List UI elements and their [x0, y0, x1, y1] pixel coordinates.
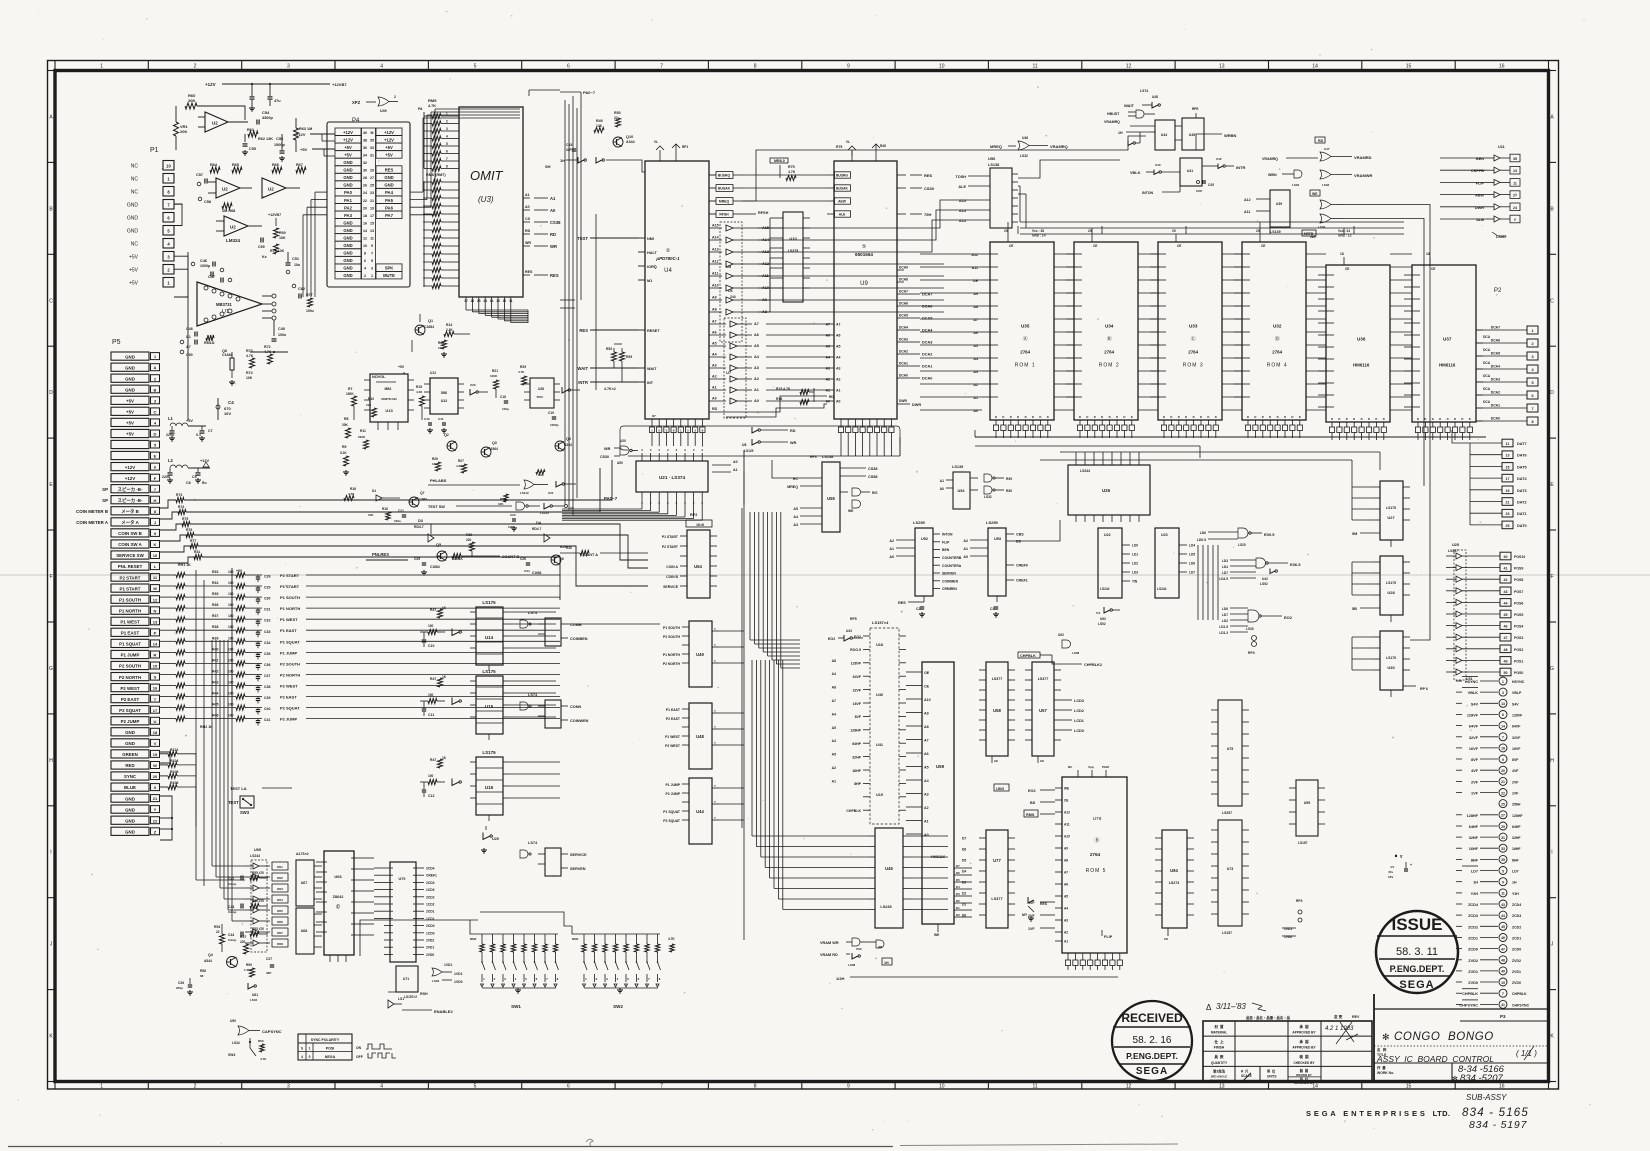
svg-text:U65: U65	[254, 848, 261, 852]
svg-text:11: 11	[1501, 892, 1505, 896]
gate U31b LS132	[516, 502, 525, 510]
svg-text:A4: A4	[1064, 907, 1068, 911]
svg-text:C: C	[49, 298, 53, 304]
inverter U62 flag	[1028, 897, 1034, 903]
svg-text:U49: U49	[696, 652, 704, 657]
ic U28b latch small	[530, 378, 554, 408]
svg-text:12: 12	[153, 597, 158, 602]
svg-text:GND: GND	[125, 730, 135, 735]
svg-text:LD3: LD3	[1132, 571, 1138, 575]
svg-text:GND: GND	[343, 258, 352, 263]
svg-text:23: 23	[370, 191, 374, 195]
svg-text:DCA9: DCA9	[899, 266, 908, 270]
svg-text:DCA0: DCA0	[1491, 417, 1500, 421]
connector P5 pin Y GND	[111, 805, 149, 813]
svg-text:ZCD2: ZCD2	[1468, 925, 1478, 929]
svg-text:D2: D2	[956, 899, 960, 903]
svg-text:U47: U47	[1324, 147, 1330, 151]
wire GND pins joined	[160, 752, 170, 763]
svg-text:1000p: 1000p	[200, 264, 211, 268]
svg-text:68: 68	[200, 974, 204, 978]
svg-text:LD4.5: LD4.5	[1219, 577, 1228, 581]
svg-text:LS175: LS175	[482, 750, 496, 755]
svg-text:75H: 75H	[924, 212, 931, 217]
svg-text:+5V: +5V	[300, 147, 308, 152]
svg-text:40: 40	[363, 131, 367, 135]
svg-text:RES: RES	[1040, 902, 1048, 906]
node P2 JUMP label	[160, 718, 176, 720]
svg-text:21: 21	[370, 199, 374, 203]
svg-text:C25: C25	[414, 557, 420, 561]
svg-text:BS: BS	[1016, 540, 1022, 544]
svg-text:LS138: LS138	[988, 163, 999, 167]
svg-text:P2 START: P2 START	[280, 573, 300, 578]
svg-text:LD7: LD7	[1222, 613, 1228, 617]
svg-text:58. 3. 11: 58. 3. 11	[1396, 946, 1438, 958]
wire buffered address to U9	[766, 323, 827, 325]
svg-text:G: G	[1550, 666, 1554, 672]
svg-text:C46: C46	[200, 259, 207, 263]
svg-text:2: 2	[1531, 342, 1533, 346]
svg-text:33: 33	[1501, 847, 1505, 851]
transistor Q4 A544	[227, 957, 238, 968]
svg-text:D: D	[1193, 415, 1195, 419]
svg-text:2VF: 2VF	[1512, 780, 1519, 784]
svg-text:WE: WE	[1064, 787, 1069, 791]
svg-text:INTR: INTR	[578, 380, 588, 385]
svg-text:16HF: 16HF	[1469, 847, 1479, 851]
svg-text:D3: D3	[962, 881, 966, 885]
svg-text:ZVD2: ZVD2	[1512, 959, 1521, 963]
svg-text:R16: R16	[350, 487, 356, 491]
svg-text:C29: C29	[264, 586, 270, 590]
svg-text:GND : 14: GND : 14	[1032, 234, 1046, 238]
svg-text:R8: R8	[344, 417, 349, 421]
svg-text:R36: R36	[212, 603, 218, 607]
svg-text:4.7K: 4.7K	[518, 370, 525, 374]
svg-text:U22: U22	[1104, 533, 1111, 537]
svg-text:100: 100	[228, 703, 234, 707]
svg-text:DAT6: DAT6	[1517, 454, 1527, 458]
svg-text:ZCD2: ZCD2	[1512, 925, 1521, 929]
wire U76 data to U94	[1067, 966, 1069, 971]
op-amp U2c	[262, 178, 286, 198]
svg-text:Y: Y	[714, 816, 716, 820]
svg-text:SERVEN: SERVEN	[942, 572, 956, 576]
table SYNC POLARITY	[298, 1034, 352, 1060]
svg-text:A11: A11	[1244, 210, 1250, 214]
svg-text:RH1 1K: RH1 1K	[178, 563, 191, 567]
svg-text:U29: U29	[470, 383, 476, 387]
svg-text:GND: GND	[343, 273, 352, 278]
svg-text:12: 12	[1126, 64, 1132, 70]
wire service sw run	[160, 546, 192, 552]
svg-text:D: D	[1383, 417, 1385, 421]
inverter U92 LS02	[1104, 607, 1110, 613]
svg-text:1K: 1K	[442, 606, 447, 610]
svg-text:2764: 2764	[1272, 349, 1282, 354]
wire mid horizontal trunk y456	[628, 455, 900, 457]
svg-text:WAIT: WAIT	[647, 367, 657, 371]
svg-text:16: 16	[1499, 1084, 1505, 1090]
svg-text:U37: U37	[1443, 336, 1452, 341]
svg-text:R44: R44	[212, 692, 218, 696]
svg-text:P: P	[154, 631, 157, 636]
svg-text:R57: R57	[240, 935, 246, 939]
svg-text:16: 16	[153, 686, 158, 691]
wire U66 to U70	[362, 857, 374, 859]
wire CPU area to bottom trunk	[595, 214, 597, 390]
svg-text:CE: CE	[924, 684, 930, 688]
svg-text:μPD780C-1: μPD780C-1	[655, 256, 680, 261]
svg-text:20: 20	[1172, 229, 1176, 233]
wire from U16 outputs right	[509, 761, 560, 763]
svg-text:+5V: +5V	[129, 268, 139, 274]
svg-text:U54: U54	[958, 489, 966, 493]
svg-text:SW2: SW2	[613, 1004, 623, 1009]
svg-text:GND: GND	[125, 376, 135, 381]
resistor R52 R53 pullups	[612, 352, 617, 361]
svg-text:P2 JUMP: P2 JUMP	[665, 792, 680, 796]
svg-text:Y2H: Y2H	[1471, 892, 1479, 896]
svg-text:A15: A15	[712, 224, 719, 228]
svg-text:U21 · LS374: U21 · LS374	[659, 475, 685, 480]
svg-text:PHLABS: PHLABS	[430, 478, 447, 483]
svg-text:A12: A12	[1244, 198, 1251, 202]
U4 address pins A7-A0	[709, 323, 726, 325]
svg-text:ZCD1: ZCD1	[1468, 937, 1478, 941]
svg-text:SYNC POLARITY: SYNC POLARITY	[311, 1038, 340, 1042]
svg-text:Q4: Q4	[208, 953, 213, 957]
svg-text:LS157×4: LS157×4	[872, 620, 889, 625]
svg-text:R74: R74	[178, 505, 184, 509]
svg-text:DCA7: DCA7	[899, 290, 908, 294]
svg-text:+12V: +12V	[343, 130, 353, 135]
svg-text:556: 556	[441, 391, 447, 395]
svg-text:D: D	[1131, 415, 1133, 419]
svg-text:U46: U46	[1022, 136, 1028, 140]
svg-text:VRAMRQ: VRAMRQ	[1104, 120, 1120, 124]
svg-text:GND: GND	[343, 266, 352, 271]
svg-text:R72: R72	[264, 345, 271, 349]
svg-text:A3: A3	[712, 364, 717, 368]
svg-text:MB3731: MB3731	[216, 302, 232, 307]
svg-text:R27: R27	[458, 459, 464, 463]
wire P2 EAST to encoder	[306, 696, 560, 698]
svg-text:3: 3	[371, 267, 373, 271]
svg-text:R66: R66	[272, 163, 279, 167]
svg-text:D: D	[1123, 415, 1125, 419]
svg-text:ZVD2: ZVD2	[1468, 959, 1478, 963]
op-amp U1 MB3731 power amplifier	[197, 282, 262, 326]
svg-text:LS30: LS30	[1246, 627, 1254, 631]
capacitor C10 U14	[423, 632, 425, 639]
transistor Q3 A564	[481, 447, 491, 457]
svg-text:U16: U16	[485, 785, 494, 790]
svg-text:DCA5: DCA5	[1491, 352, 1500, 356]
svg-text:R47: R47	[430, 677, 436, 681]
svg-text:G: G	[49, 666, 53, 672]
svg-text:C50: C50	[186, 353, 193, 357]
connector P5 pin 13 P1 WEST	[111, 617, 149, 625]
U9 top right control outs	[897, 174, 906, 176]
svg-text:6: 6	[446, 150, 448, 154]
svg-text:CBS: CBS	[1016, 533, 1024, 537]
svg-text:LS20: LS20	[1238, 543, 1246, 547]
svg-text:CE: CE	[1345, 267, 1349, 271]
svg-text:D1: D1	[372, 489, 376, 493]
svg-text:A0: A0	[836, 400, 841, 404]
svg-text:✻: ✻	[1382, 1032, 1390, 1042]
svg-text:LS259: LS259	[913, 520, 926, 525]
svg-text:4.7K: 4.7K	[788, 170, 796, 174]
svg-text:VRAMWR: VRAMWR	[1354, 173, 1373, 178]
wire U45 left data runs	[820, 835, 868, 837]
svg-text:A0: A0	[889, 555, 894, 559]
wire A15-A8 to U10	[758, 227, 770, 229]
svg-text:H: H	[1550, 758, 1554, 764]
svg-text:D3: D3	[956, 892, 960, 896]
svg-text:A11: A11	[712, 272, 718, 276]
svg-text:1500p: 1500p	[274, 143, 285, 147]
ic U21 LS374 latch	[636, 461, 708, 492]
svg-text:10: 10	[153, 553, 158, 558]
svg-text:A5: A5	[754, 344, 759, 348]
gate U50 LS32 capsync	[238, 1026, 249, 1035]
svg-text:RED: RED	[125, 763, 134, 768]
svg-text:31: 31	[1501, 836, 1505, 840]
wire P1 WEST to encoder	[306, 618, 560, 620]
svg-text:COUNT B: COUNT B	[502, 555, 520, 559]
svg-text:H: H	[49, 758, 53, 764]
svg-text:R21: R21	[492, 369, 498, 373]
svg-text:A0: A0	[826, 400, 830, 404]
svg-text:C4: C4	[228, 400, 234, 405]
svg-text:U25: U25	[1452, 543, 1459, 547]
gates U51 LS08 pair	[852, 488, 861, 496]
svg-text:U57: U57	[1039, 708, 1047, 713]
svg-text:D: D	[1461, 417, 1463, 421]
svg-text:16V: 16V	[1388, 875, 1393, 879]
svg-text:C44: C44	[228, 933, 234, 937]
svg-text:A6: A6	[836, 334, 841, 338]
svg-text:RD: RD	[525, 229, 531, 233]
svg-text:RES: RES	[385, 168, 394, 173]
svg-text:CS38: CS38	[550, 220, 561, 225]
svg-text:D2: D2	[962, 892, 966, 896]
wire PA0-PA3 bus from P4	[315, 191, 327, 193]
svg-text:+12V: +12V	[200, 459, 209, 463]
svg-text:ENABLE2: ENABLE2	[434, 1009, 453, 1014]
svg-text:8HF: 8HF	[1512, 858, 1519, 862]
svg-text:7: 7	[1502, 992, 1504, 996]
svg-text:A1: A1	[712, 386, 717, 390]
U1 output pins	[262, 295, 272, 297]
connector P5 pin 3 +5V	[111, 396, 149, 404]
connector P5 pin P P1 EAST	[111, 628, 149, 636]
svg-text:LD5: LD5	[1189, 553, 1195, 557]
svg-text:Q5: Q5	[436, 543, 441, 547]
svg-text:+12V: +12V	[343, 137, 353, 142]
svg-text:47: 47	[1501, 947, 1505, 951]
svg-text:A7: A7	[832, 699, 836, 703]
page inner border frame	[55, 71, 1549, 1082]
svg-text:P3: P3	[1500, 1014, 1506, 1019]
svg-text:LD0.5: LD0.5	[1197, 538, 1206, 542]
svg-text:LCD0: LCD0	[1074, 729, 1084, 733]
resistor network RH U14	[438, 609, 443, 618]
svg-text:32: 32	[363, 161, 367, 165]
svg-text:ALE: ALE	[958, 185, 966, 189]
svg-text:P1 START: P1 START	[280, 584, 300, 589]
svg-text:R31: R31	[194, 550, 200, 554]
svg-text:POS8: POS8	[1514, 578, 1523, 582]
svg-text:SERVICE: SERVICE	[570, 853, 587, 857]
svg-text:42: 42	[1504, 578, 1508, 582]
svg-text:1H: 1H	[884, 961, 889, 965]
inverter U19 for U15	[452, 698, 459, 705]
svg-text:RD4.7: RD4.7	[414, 525, 424, 529]
wire U59 WE bottom	[937, 924, 939, 932]
ic U70 output latch	[390, 862, 416, 962]
svg-text:5: 5	[474, 1084, 477, 1090]
svg-text:U95: U95	[1304, 801, 1311, 805]
svg-text:U53: U53	[994, 537, 1001, 541]
svg-text:D: D	[1010, 415, 1012, 419]
svg-text:47u: 47u	[274, 99, 281, 103]
svg-text:RPE: RPE	[1192, 107, 1199, 111]
svg-text:OMIT: OMIT	[470, 168, 504, 183]
svg-text:DCA4: DCA4	[1491, 365, 1500, 369]
svg-text:U48: U48	[696, 734, 704, 739]
svg-text:100: 100	[228, 614, 234, 618]
svg-text:U94: U94	[1170, 868, 1178, 873]
svg-text:D: D	[1017, 415, 1019, 419]
svg-text:ZCD4: ZCD4	[1468, 903, 1479, 907]
ic U26 LS244	[1068, 465, 1150, 515]
svg-text:A7: A7	[1064, 871, 1068, 875]
svg-text:EO2: EO2	[1284, 615, 1293, 620]
svg-text:8HP: 8HP	[854, 782, 861, 786]
svg-text:2: 2	[446, 120, 448, 124]
svg-text:R47: R47	[430, 758, 436, 762]
svg-text:VL: VL	[846, 140, 850, 144]
svg-text:9: 9	[847, 64, 850, 70]
svg-text:名: 名	[1377, 1047, 1380, 1052]
svg-text:U41: U41	[1187, 169, 1193, 173]
svg-text:R73: R73	[246, 349, 253, 353]
svg-text:P2 EAST: P2 EAST	[280, 695, 297, 700]
svg-text:C1684: C1684	[424, 325, 434, 329]
wire U9 bottom pins to trunk	[840, 444, 842, 456]
wire ROM address feed lines	[920, 253, 956, 255]
svg-text:RP3: RP3	[1296, 899, 1303, 903]
svg-text:834 -5207: 834 -5207	[1460, 1073, 1504, 1084]
svg-text:R61: R61	[277, 865, 283, 869]
ROM inter-chip address bus lines	[1054, 253, 1074, 255]
resistor R61	[248, 131, 258, 137]
svg-text:BUSRQ: BUSRQ	[718, 174, 731, 178]
capacitor C53	[269, 84, 271, 96]
svg-text:Y: Y	[714, 784, 716, 788]
svg-text:100u: 100u	[278, 333, 286, 337]
svg-text:9: 9	[847, 1084, 850, 1090]
svg-text:DCA1: DCA1	[899, 362, 908, 366]
svg-text:A0: A0	[754, 399, 759, 403]
svg-text:P2 EAST: P2 EAST	[666, 717, 681, 721]
svg-text:50: 50	[1504, 671, 1508, 675]
svg-text:5: 5	[371, 259, 373, 263]
svg-text:P2 START: P2 START	[120, 575, 141, 580]
wire right control bus down	[1344, 205, 1430, 481]
wire P2 WEST to encoder	[306, 685, 560, 687]
svg-text:U68: U68	[301, 929, 308, 933]
svg-text:R58: R58	[200, 969, 206, 973]
svg-text:U64: U64	[694, 564, 702, 569]
wire P2 JUMP to encoder	[306, 718, 560, 720]
node P1 START label	[160, 585, 176, 587]
svg-text:100: 100	[228, 636, 234, 640]
svg-text:U2: U2	[268, 187, 274, 192]
svg-text:8: 8	[754, 64, 757, 70]
svg-text:LBIG: LBIG	[996, 787, 1004, 791]
svg-text:LS257: LS257	[1222, 811, 1232, 815]
wire +12V to P4	[310, 133, 335, 135]
svg-text:R: R	[154, 653, 157, 658]
svg-text:DCA3: DCA3	[922, 341, 932, 345]
svg-text:C: C	[1550, 298, 1554, 304]
svg-text:C33: C33	[264, 630, 270, 634]
svg-text:P2 WEST: P2 WEST	[280, 684, 298, 689]
svg-text:R15 4.7K: R15 4.7K	[776, 387, 791, 391]
title dotted separator	[1374, 1045, 1548, 1047]
svg-text:D: D	[1331, 417, 1333, 421]
svg-text:VRAMRD: VRAMRD	[1354, 155, 1372, 160]
svg-text:D4: D4	[956, 885, 960, 889]
svg-text:128VF: 128VF	[851, 662, 862, 666]
svg-text:DCA: DCA	[1483, 361, 1491, 365]
svg-text:Q10: Q10	[626, 135, 633, 139]
svg-text:2VF: 2VF	[1028, 914, 1035, 918]
svg-text:1VF: 1VF	[1512, 792, 1519, 796]
svg-text:WR: WR	[604, 447, 611, 451]
svg-text:U44: U44	[1161, 133, 1167, 137]
svg-text:A6: A6	[1064, 883, 1068, 887]
svg-text:C42: C42	[228, 877, 234, 881]
svg-text:COINMEN: COINMEN	[942, 579, 959, 583]
svg-text:9: 9	[1502, 881, 1504, 885]
svg-text:U45: U45	[1189, 133, 1195, 137]
LCD output labels	[1061, 699, 1072, 701]
svg-text:A3: A3	[754, 366, 759, 370]
svg-text:LS157×2: LS157×2	[404, 995, 417, 999]
dip switch array SW2	[580, 933, 660, 935]
resistor R69 10K	[274, 228, 279, 238]
svg-text:WR: WR	[550, 244, 557, 249]
svg-text:6: 6	[364, 259, 366, 263]
svg-text:U76: U76	[1093, 816, 1102, 822]
svg-text:COIN SW A: COIN SW A	[118, 542, 142, 547]
svg-text:8: 8	[1531, 420, 1533, 424]
svg-text:P5: P5	[112, 339, 121, 346]
svg-text:LS175: LS175	[1386, 581, 1396, 585]
svg-text:P1 START: P1 START	[120, 586, 141, 591]
wire pnl reset run	[160, 557, 196, 563]
svg-text:D: D	[1094, 415, 1096, 419]
svg-text:LS175: LS175	[482, 600, 496, 605]
svg-text:D: D	[1215, 415, 1217, 419]
svg-text:+5V: +5V	[236, 569, 243, 573]
